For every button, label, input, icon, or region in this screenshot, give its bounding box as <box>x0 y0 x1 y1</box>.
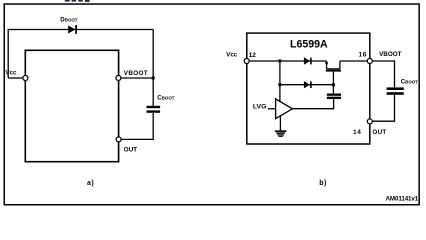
wire LVG input <box>268 108 276 110</box>
wire VBOOT to cap rail (a) <box>121 77 154 79</box>
node VBOOT pin 16 circle <box>367 59 372 64</box>
IC block box (a) <box>25 50 118 161</box>
svg-text:b): b) <box>319 180 327 187</box>
junction dot row2 left (b) <box>278 83 281 86</box>
capacitor internal (b) <box>327 94 341 100</box>
wire cap to driver output (b) <box>292 99 333 109</box>
node OUT pin 14 circle <box>367 119 372 124</box>
svg-text:DBOOT: DBOOT <box>60 16 77 23</box>
transistor internal DMOS <box>325 61 341 72</box>
svg-text:Vcc: Vcc <box>226 51 238 58</box>
IC box U1 (b) <box>247 33 370 144</box>
node VBOOT pin circle (a) <box>116 76 121 81</box>
node OUT pin circle (a) <box>116 137 121 142</box>
svg-text:a): a) <box>87 180 94 187</box>
svg-text:CBOOT: CBOOT <box>157 94 174 101</box>
svg-text:LVG: LVG <box>253 103 266 110</box>
wire Vcc stub (a) <box>8 77 23 79</box>
op-amp LVG driver triangle <box>276 99 293 119</box>
diode DBOOT <box>68 25 76 34</box>
wire drain to pin16 (b) <box>340 60 368 62</box>
svg-text:OUT: OUT <box>124 147 137 154</box>
wire CBOOT to pin14 (b) <box>372 95 394 121</box>
svg-text:CBOOT: CBOOT <box>401 79 418 86</box>
capacitor CBOOT (a) <box>147 106 161 113</box>
svg-text:VBOOT: VBOOT <box>379 51 402 58</box>
diode D1 (b) <box>304 57 311 64</box>
wire pin16 to CBOOT rail (b) <box>372 61 394 87</box>
cropped text remnant top <box>65 0 90 2</box>
wire ground stem <box>279 116 281 130</box>
diode D2 (b) <box>304 81 311 88</box>
wire Vcc left rail (a) <box>8 30 153 79</box>
capacitor CBOOT (b) <box>387 87 404 94</box>
node Vcc pin 12 circle <box>244 59 249 64</box>
svg-text:AM01141v1: AM01141v1 <box>386 196 419 203</box>
junction dot row1 (b) <box>278 59 281 62</box>
junction dot row2 right (b) <box>332 83 335 86</box>
svg-text:Vcc: Vcc <box>5 70 17 77</box>
svg-text:12: 12 <box>249 52 257 59</box>
wire pin12 top rail (b) <box>249 60 327 62</box>
svg-text:OUT: OUT <box>372 129 386 136</box>
node Vcc pin circle (a) <box>23 76 28 81</box>
wire right rail down to cap (a) <box>152 30 154 107</box>
wire gate stem (b) <box>332 72 334 94</box>
svg-text:L6599A: L6599A <box>290 39 328 51</box>
wire charge branch vertical (b) <box>279 61 281 102</box>
svg-text:VBOOT: VBOOT <box>124 70 148 77</box>
svg-text:16: 16 <box>359 51 367 58</box>
svg-text:14: 14 <box>353 129 361 136</box>
junction dot (a) <box>152 76 155 79</box>
wire row2 (b) <box>280 84 334 86</box>
ground <box>275 130 287 137</box>
wire cap to OUT (a) <box>121 113 153 140</box>
